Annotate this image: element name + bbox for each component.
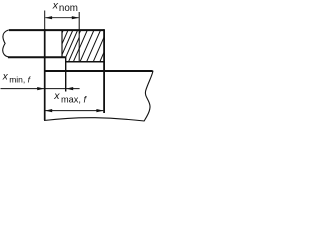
extension line x=79.2 bbox=[78, 12, 80, 62]
upper bar left break line bbox=[3, 30, 9, 57]
x_min,f dimension line with outside arrows bbox=[1, 88, 80, 90]
svg-text:x: x bbox=[52, 0, 59, 11]
x_min,f left arrowhead (points right at datum) bbox=[37, 87, 44, 90]
svg-text:min, f: min, f bbox=[9, 74, 31, 84]
svg-text:x: x bbox=[53, 90, 60, 102]
housing right break line bbox=[144, 71, 153, 122]
x_nom right arrowhead bbox=[72, 16, 79, 19]
svg-text:nom: nom bbox=[59, 3, 78, 14]
upper bar top edge bbox=[9, 29, 104, 31]
x_max,f dimension line bbox=[45, 110, 103, 112]
upper bar bottom edge bbox=[8, 56, 66, 58]
datum extension line x=44.7 upper thin part bbox=[44, 11, 46, 30]
housing top edge bbox=[45, 70, 153, 72]
step line x=65.7 bbox=[65, 57, 67, 92]
seal hatch strokes left section bbox=[44, 30, 87, 63]
svg-text:x: x bbox=[2, 71, 9, 82]
x_min,f right arrowhead (points left at step line) bbox=[66, 87, 73, 90]
datum line x=44.7 lower part bbox=[44, 29, 46, 120]
face line x=103.8 bbox=[103, 29, 105, 113]
seal hatch strokes right section bbox=[67, 30, 115, 63]
housing bottom break line bbox=[44, 118, 144, 121]
seal insert bottom edge bbox=[65, 61, 103, 63]
x_nom left arrowhead bbox=[45, 16, 52, 19]
svg-text:max, f: max, f bbox=[61, 95, 87, 105]
x_max,f left arrowhead bbox=[45, 109, 52, 112]
seal insert left edge bbox=[61, 30, 63, 57]
x_max,f right arrowhead bbox=[96, 109, 103, 112]
x_nom dimension line bbox=[45, 17, 78, 19]
